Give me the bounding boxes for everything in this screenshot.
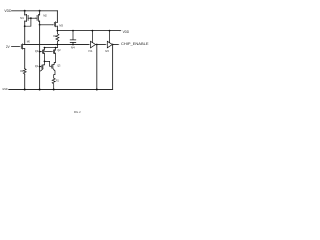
wire IV1 output	[96, 44, 105, 46]
inverter IV2	[105, 31, 112, 54]
svg-text:Q0: Q0	[35, 49, 39, 53]
wire top VDD rail	[12, 10, 58, 12]
svg-text:VDD: VDD	[123, 30, 130, 34]
svg-text:M1: M1	[20, 16, 24, 20]
wire IV2 out to ground rail corner	[112, 45, 114, 90]
node junction IV1 power	[92, 30, 94, 32]
wire M2 drain down to cell	[39, 25, 41, 90]
node gate junction	[30, 17, 32, 19]
node drain M2 junction	[39, 24, 41, 26]
wire riser N4 to collector rail	[56, 45, 58, 48]
wire Q0 emitter to Q3 base	[45, 61, 51, 66]
node junction Q0 collector	[44, 47, 46, 49]
wire diode connection M1	[25, 18, 31, 26]
transistor Q1	[35, 61, 45, 71]
wire VDD rail drop to M3	[56, 11, 58, 22]
inverter IV1	[89, 31, 96, 54]
transistor Q2	[53, 48, 60, 63]
wire switched VDD line	[57, 30, 119, 32]
wire gate tie M1-M2	[28, 17, 37, 19]
node junction M0 source ground	[24, 89, 26, 91]
svg-text:IV1: IV1	[89, 49, 93, 53]
transistor M2	[37, 11, 47, 25]
wire Q2 emitter to Q3 collector	[53, 62, 56, 64]
capacitor C1	[70, 31, 76, 45]
transistor Q3	[52, 63, 61, 78]
svg-text:IV2: IV2	[105, 49, 109, 53]
svg-text:R2: R2	[20, 69, 23, 73]
node rail junction M2	[39, 10, 41, 12]
svg-text:N4: N4	[71, 45, 75, 49]
svg-text:VDD: VDD	[4, 9, 12, 13]
wire ground rail	[9, 89, 113, 91]
node junction Q1 emitter ground	[39, 89, 41, 91]
transistor M1	[20, 11, 28, 45]
resistor R1	[52, 78, 59, 90]
node junction cap bottom	[72, 44, 74, 46]
wire bases row1	[40, 51, 41, 53]
node junction IV1 ground	[96, 89, 98, 91]
svg-text:M3: M3	[59, 23, 63, 27]
node junction R1 ground	[53, 89, 55, 91]
node junction IV2 power	[109, 30, 111, 32]
transistor M0	[12, 40, 31, 69]
node junction bases row1	[39, 51, 41, 53]
svg-text:CHIP_ENABLE: CHIP_ENABLE	[121, 42, 149, 46]
node junction Q0 emitter	[44, 61, 46, 63]
node junction M3 drain	[57, 30, 59, 32]
transistor M3	[54, 22, 63, 31]
svg-text:R0: R0	[53, 34, 56, 38]
wire IV2 output	[112, 44, 117, 46]
svg-text:GND: GND	[2, 87, 8, 91]
wire collector rail row1	[45, 47, 58, 49]
node junction cap top	[72, 30, 74, 32]
node rail junction M1	[24, 10, 26, 12]
svg-text:M2: M2	[43, 14, 47, 18]
resistor R0	[53, 31, 59, 45]
wire IV1 out to ground rail	[96, 45, 98, 90]
svg-text:FIG. 2: FIG. 2	[74, 110, 81, 114]
resistor R2	[20, 69, 26, 90]
svg-text:Q2: Q2	[57, 48, 60, 52]
node drain M1 junction	[24, 25, 26, 27]
node junction Q2 collector	[55, 47, 57, 49]
svg-text:Q3: Q3	[57, 63, 60, 67]
node junction IV2 out	[112, 44, 114, 46]
svg-text:2V: 2V	[6, 45, 11, 49]
transistor Q0	[35, 48, 45, 62]
wire M2 drain to M3 gate	[40, 24, 53, 26]
node junction R0 bottom	[57, 44, 59, 46]
svg-text:M0: M0	[27, 40, 30, 44]
wire node N4 horizontal	[25, 44, 89, 46]
svg-text:Q1: Q1	[35, 64, 39, 68]
svg-text:R1: R1	[56, 79, 59, 83]
node junction IV1 out	[96, 44, 98, 46]
node junction Q1 base tap	[39, 66, 41, 68]
